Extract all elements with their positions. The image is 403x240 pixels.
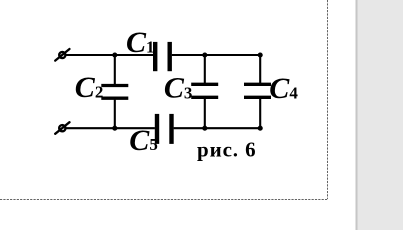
right gray panel — [356, 0, 403, 230]
terminal bottom-left — [55, 122, 69, 134]
capacitor C3 (middle vertical branch) — [191, 55, 218, 128]
svg-text:рис. 6: рис. 6 — [197, 137, 257, 161]
junction node top-middle — [202, 52, 207, 57]
wire top: C1 right plate to right end — [172, 54, 260, 56]
dashed frame right edge — [327, 0, 329, 199]
terminal top-left — [55, 49, 69, 61]
capacitor C1 (top branch, horizontal) — [155, 42, 170, 71]
junction node bottom-left — [112, 126, 117, 131]
capacitor C4 (right vertical branch) — [244, 55, 271, 128]
capacitor C5 (bottom branch, horizontal) — [157, 114, 172, 144]
junction node top-right — [258, 52, 263, 57]
wire bottom: terminal to C5 left plate — [66, 127, 155, 129]
junction node top-left — [112, 52, 117, 57]
junction node bottom-right — [258, 126, 263, 131]
wire bottom: C5 right plate to right end — [174, 127, 261, 129]
dashed frame bottom edge — [0, 199, 328, 201]
capacitor C2 (left vertical branch) — [101, 55, 128, 128]
wire top: terminal to C1 left plate — [66, 54, 153, 56]
junction node bottom-middle — [202, 126, 207, 131]
